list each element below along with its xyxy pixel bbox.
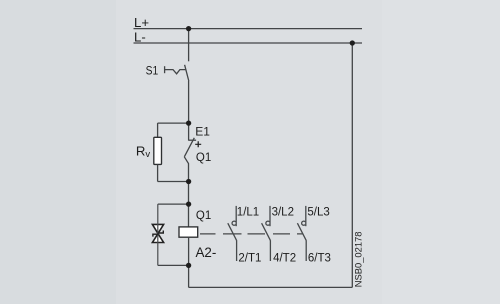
junction node suppressor top bbox=[186, 201, 191, 206]
main contact 5/L3-6/T3 bbox=[297, 206, 306, 261]
wire coil to bottom corner bbox=[188, 237, 190, 287]
wire E1 contact to coil bbox=[184, 157, 188, 227]
switch S1 actuator tick bbox=[164, 66, 166, 73]
rail L- bbox=[134, 42, 363, 44]
coil Q1 body bbox=[179, 227, 198, 237]
mechanical link dashed line bbox=[200, 233, 303, 235]
suppressor (bidirectional breakdown diode) bbox=[152, 224, 163, 242]
svg-text:A2-: A2- bbox=[196, 245, 217, 260]
contact E1/Q1 blade bbox=[184, 138, 194, 157]
rail L+ bbox=[134, 28, 363, 30]
junction node suppressor bottom bbox=[186, 263, 191, 268]
Rv branch left wire upper bbox=[157, 123, 159, 137]
suppressor bottom triangle bbox=[152, 234, 163, 243]
svg-text:Q1: Q1 bbox=[196, 152, 211, 164]
svg-text:1/L1: 1/L1 bbox=[237, 207, 259, 219]
main contact 3/L2-4/T2 bbox=[262, 206, 271, 261]
Rv branch left wire lower bbox=[157, 164, 159, 181]
svg-text:6/T3: 6/T3 bbox=[308, 253, 331, 265]
svg-text:L-: L- bbox=[134, 30, 146, 45]
svg-text:NSB0_02178: NSB0_02178 bbox=[353, 232, 364, 288]
switch S1 contact blade bbox=[185, 65, 189, 81]
background right band bbox=[382, 0, 500, 304]
right return wire up to L- bbox=[351, 43, 353, 287]
suppressor top triangle bbox=[152, 224, 163, 233]
resistor Rv body bbox=[154, 137, 162, 164]
svg-text:S1: S1 bbox=[146, 64, 159, 77]
svg-text:Q1: Q1 bbox=[196, 210, 211, 222]
wire S1 to E1 contact fixed terminal bbox=[188, 81, 190, 141]
wire from L+ down to S1 bbox=[188, 29, 190, 62]
E1 fixed terminal tick bbox=[189, 139, 197, 141]
svg-text:E1: E1 bbox=[195, 124, 210, 138]
switch S1 actuator line with notch bbox=[165, 70, 186, 74]
suppressor branch bottom wire bbox=[158, 264, 189, 266]
suppressor branch top wire bbox=[158, 203, 189, 205]
junction node Rv bottom bbox=[186, 179, 191, 184]
junction node Rv top bbox=[186, 120, 191, 125]
junction dot on L- bbox=[350, 40, 355, 45]
suppressor zener bars bbox=[153, 231, 163, 237]
svg-text:2/T1: 2/T1 bbox=[238, 253, 261, 265]
plus sign of E1 contact bbox=[195, 141, 201, 147]
svg-text:L+: L+ bbox=[134, 15, 149, 30]
junction dot on L+ bbox=[186, 26, 191, 31]
main contact 1/L1-2/T1 bbox=[228, 206, 237, 261]
Rv branch top wire bbox=[158, 122, 189, 124]
svg-text:5/L3: 5/L3 bbox=[307, 207, 329, 219]
svg-text:3/L2: 3/L2 bbox=[272, 207, 294, 219]
background middle panel bbox=[116, 0, 382, 304]
suppressor branch left wire (passes through symbol) bbox=[157, 204, 159, 265]
bottom return wire bbox=[189, 286, 353, 288]
Rv branch bottom wire bbox=[158, 181, 189, 183]
svg-text:4/T2: 4/T2 bbox=[273, 253, 296, 265]
